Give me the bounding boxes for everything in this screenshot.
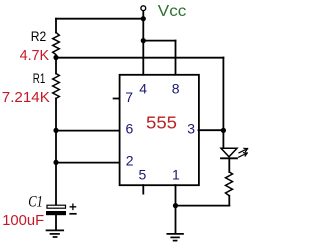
svg-text:R2: R2	[31, 28, 47, 44]
svg-text:Vcc: Vcc	[158, 3, 187, 20]
svg-text:6: 6	[126, 121, 134, 137]
svg-text:7.214K: 7.214K	[2, 89, 50, 106]
svg-text:1: 1	[172, 167, 180, 183]
svg-text:5: 5	[139, 167, 147, 183]
svg-text:3: 3	[187, 120, 195, 136]
svg-text:R1: R1	[33, 70, 46, 86]
svg-text:C1: C1	[28, 194, 43, 211]
svg-text:7: 7	[125, 89, 133, 105]
svg-text:8: 8	[172, 80, 180, 96]
svg-text:555: 555	[146, 113, 177, 133]
svg-text:100uF: 100uF	[2, 212, 44, 229]
svg-text:2: 2	[126, 153, 134, 169]
svg-text:4.7K: 4.7K	[20, 47, 49, 64]
svg-text:4: 4	[139, 80, 147, 96]
